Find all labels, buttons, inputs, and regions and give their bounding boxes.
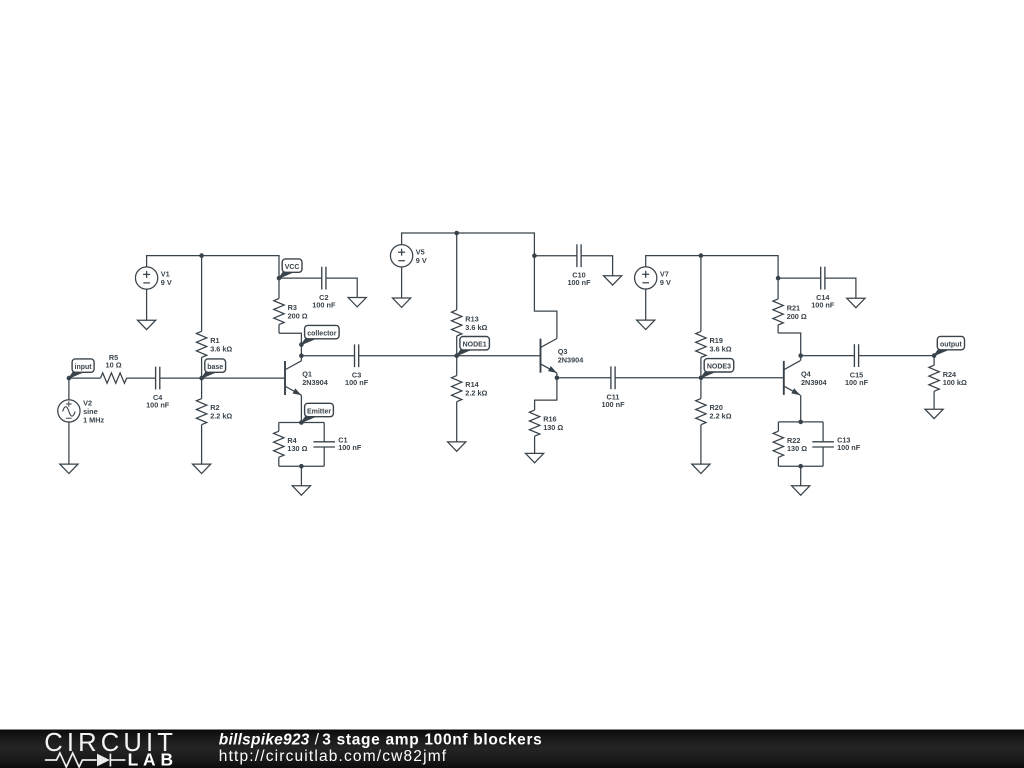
wire V2 to ground (68, 422, 70, 464)
node label base (202, 359, 226, 378)
wire V1 to ground (146, 289, 148, 320)
node rail / R13 junction (454, 231, 459, 236)
node label Emitter (301, 403, 333, 422)
node NODE3 (699, 376, 704, 381)
logo resistor-diode symbol (45, 753, 126, 767)
svg-text:130 Ω: 130 Ω (287, 444, 307, 453)
node collector (299, 342, 304, 347)
wire C11 to NODE3 (615, 377, 701, 379)
wire Q3 emitter (556, 373, 558, 378)
svg-text:NODE3: NODE3 (707, 364, 731, 371)
wire emitter to R16 (535, 378, 557, 410)
node input (67, 376, 72, 381)
ground (637, 320, 655, 329)
voltage source V2 (58, 399, 105, 425)
svg-text:collector: collector (307, 331, 336, 338)
ground (692, 464, 710, 473)
capacitor C13 (812, 422, 860, 466)
svg-text:100 nF: 100 nF (312, 301, 336, 310)
svg-text:100 nF: 100 nF (601, 400, 625, 409)
node NODE1 (454, 353, 459, 358)
node label VCC (279, 259, 302, 278)
capacitor C2 (312, 267, 336, 310)
wire VCC to C2 (279, 277, 322, 279)
resistor R21 (773, 278, 807, 333)
ground (448, 442, 466, 451)
wire collector to C15 (801, 355, 855, 357)
svg-text:2.2 kΩ: 2.2 kΩ (710, 412, 732, 421)
wire C2 to ground (326, 278, 357, 297)
transistor Q1 (285, 361, 329, 395)
capacitor C1 (313, 423, 361, 467)
wire input to V2 (68, 378, 70, 400)
node Q4 collector junction (798, 353, 803, 358)
capacitor C14 (811, 267, 835, 310)
svg-text:VCC: VCC (285, 264, 300, 271)
wire R21 to Q4 collector (778, 333, 801, 361)
svg-text:9 V: 9 V (660, 278, 671, 287)
svg-text:100 nF: 100 nF (567, 278, 591, 287)
resistor R5 (69, 353, 156, 384)
svg-text:100 nF: 100 nF (811, 301, 835, 310)
resistor R14 (452, 356, 488, 442)
svg-text:/: / (315, 732, 320, 749)
wire C15 to output (859, 355, 935, 357)
svg-text:Emitter: Emitter (307, 408, 331, 415)
svg-text:2.2 kΩ: 2.2 kΩ (465, 389, 487, 398)
svg-text:base: base (207, 364, 223, 371)
svg-text:100 nF: 100 nF (845, 378, 869, 387)
svg-text:LAB: LAB (128, 750, 173, 768)
resistor R16 (529, 410, 563, 453)
ground (526, 453, 544, 462)
voltage source V5 (390, 245, 426, 267)
node rail / R19 junction (699, 253, 704, 258)
wire collector to C3 (301, 355, 354, 357)
wire C10 to ground (581, 256, 613, 276)
wire emitter block bottom (778, 465, 823, 467)
transistor Q3 (541, 339, 585, 373)
node label collector (301, 325, 339, 344)
ground (193, 464, 211, 473)
wire emitter to C11 (557, 377, 611, 379)
node rail / C14 junction (776, 276, 781, 281)
wire V5 to ground (401, 267, 403, 298)
node Q4 emitter junction (798, 420, 803, 425)
svg-text:100 kΩ: 100 kΩ (943, 378, 967, 387)
wire V1 to VCC rail (147, 256, 279, 279)
wire rail to Q3 collector (534, 256, 557, 339)
resistor R3 (274, 278, 308, 333)
ground (847, 298, 865, 307)
wire to ground (800, 466, 802, 486)
svg-text:10 Ω: 10 Ω (106, 361, 122, 370)
wire Q4 emitter (800, 395, 802, 422)
resistor R19 (696, 256, 732, 378)
svg-text:V7: V7 (660, 269, 669, 278)
wire to ground (300, 466, 302, 486)
wire V5 rail (402, 233, 535, 256)
svg-text:2N3904: 2N3904 (558, 356, 585, 365)
ground (60, 464, 78, 473)
footer bar (0, 730, 1024, 768)
wire NODE1 to Q3 base (457, 355, 541, 357)
voltage source V1 (135, 267, 171, 289)
svg-text:200 Ω: 200 Ω (787, 312, 807, 321)
wire Q1 emitter (300, 395, 302, 422)
wire to C14 (778, 277, 821, 279)
svg-text:9 V: 9 V (161, 278, 172, 287)
svg-text:NODE1: NODE1 (463, 342, 487, 349)
resistor R13 (452, 233, 488, 356)
node rail / C10 junction (532, 253, 537, 258)
svg-text:V5: V5 (416, 247, 425, 256)
node emitter block ground junction (299, 464, 304, 469)
wire emitter block top (778, 421, 823, 423)
svg-text:100 nF: 100 nF (345, 378, 369, 387)
ground (393, 298, 411, 307)
svg-text:3.6 kΩ: 3.6 kΩ (210, 344, 232, 353)
wire C14 to ground (825, 278, 856, 298)
resistor R24 (929, 356, 967, 410)
wire C3 to NODE1 (359, 355, 457, 357)
ground (292, 486, 310, 495)
resistor R20 (696, 378, 732, 464)
resistor R22 (773, 422, 807, 466)
node label NODE1 (457, 337, 490, 356)
resistor R2 (196, 378, 232, 464)
node rail / R1 junction (199, 253, 204, 258)
ground (792, 486, 810, 495)
ground (604, 276, 622, 285)
wire emitter block bottom (279, 465, 324, 467)
wire base to Q1 (202, 377, 285, 379)
node base (199, 376, 204, 381)
wire to C10 (534, 255, 577, 257)
wire V7 rail (646, 256, 778, 279)
svg-text:100 nF: 100 nF (338, 443, 362, 452)
svg-text:2.2 kΩ: 2.2 kΩ (210, 412, 232, 421)
wire emitter block top (279, 422, 324, 424)
svg-text:130 Ω: 130 Ω (787, 444, 807, 453)
capacitor C15 (845, 344, 869, 387)
svg-text:100 nF: 100 nF (146, 401, 170, 410)
wire C4 to base (160, 377, 202, 379)
svg-text:2N3904: 2N3904 (302, 378, 329, 387)
svg-text:9 V: 9 V (416, 256, 427, 265)
svg-text:200 Ω: 200 Ω (288, 311, 308, 320)
svg-text:3 stage amp 100nf blockers: 3 stage amp 100nf blockers (322, 732, 542, 749)
node emitter block ground junction (798, 464, 803, 469)
node VCC (277, 276, 282, 281)
node Q3 emitter junction (555, 376, 560, 381)
node output (932, 353, 937, 358)
capacitor C11 (601, 366, 625, 409)
svg-text:V1: V1 (161, 270, 170, 279)
svg-text:100 nF: 100 nF (837, 443, 861, 452)
svg-text:http://circuitlab.com/cw82jmf: http://circuitlab.com/cw82jmf (219, 748, 447, 765)
svg-text:130 Ω: 130 Ω (543, 423, 563, 432)
svg-text:1 MHz: 1 MHz (83, 416, 104, 425)
ground (348, 298, 366, 307)
capacitor C3 (345, 344, 369, 387)
capacitor C4 (146, 367, 170, 410)
wire NODE3 to Q4 base (701, 377, 784, 379)
transistor Q4 (784, 361, 828, 395)
svg-text:3.6 kΩ: 3.6 kΩ (465, 323, 487, 332)
node label NODE3 (701, 359, 734, 378)
ground (138, 320, 156, 329)
voltage source V7 (635, 267, 671, 289)
node label input (69, 359, 94, 378)
svg-text:3.6 kΩ: 3.6 kΩ (710, 344, 732, 353)
resistor R4 (274, 423, 308, 467)
node emitter (299, 420, 304, 425)
svg-text:input: input (75, 364, 93, 371)
node collector branch (299, 354, 304, 359)
capacitor C10 (567, 244, 591, 287)
ground (925, 409, 943, 418)
wire R3 to Q1 collector (279, 333, 301, 361)
svg-text:output: output (940, 342, 962, 349)
resistor R1 (196, 256, 232, 379)
node label output (934, 336, 964, 355)
svg-text:billspike923: billspike923 (219, 732, 310, 749)
svg-text:2N3904: 2N3904 (801, 378, 828, 387)
wire V7 to ground (645, 289, 647, 320)
